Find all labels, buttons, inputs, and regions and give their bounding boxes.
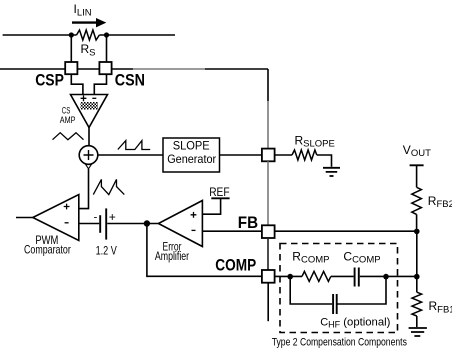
REF terminal bar <box>211 197 229 199</box>
wire: PWM output stub <box>16 217 33 219</box>
op-amp Error Amplifier triangle <box>158 201 202 247</box>
svg-text:Comparator: Comparator <box>24 243 71 257</box>
svg-text:REF: REF <box>209 187 229 199</box>
current arrow ILIN <box>72 21 97 23</box>
wire: summer output down then to PWM + input <box>79 169 89 209</box>
wire: chip edge vertical gray segment to slope pin <box>267 101 269 148</box>
wire: CHF lower branch <box>290 277 386 304</box>
VOUT terminal bar <box>410 164 424 166</box>
wire: chip edge vertical (black upper part) <box>267 69 269 101</box>
op-amp CS AMP triangle <box>71 95 108 128</box>
pin square CSP <box>65 62 77 74</box>
wire: chip edge segment FB pin to COMP pin <box>267 238 269 270</box>
svg-text:CSN: CSN <box>115 71 145 90</box>
waveform: triangle wave at CS amp output <box>53 133 84 140</box>
wire: RCOMP to CCOMP <box>331 275 354 277</box>
node: junction dot left of RS <box>69 32 74 37</box>
ground (RFB1) <box>409 328 427 336</box>
node: FB divider junction dot <box>414 229 420 235</box>
hatch block inside CS AMP <box>81 102 99 110</box>
svg-text:SLOPE: SLOPE <box>173 139 210 153</box>
node: divider/comp junction dot <box>414 274 420 280</box>
node: COMP net junction dot <box>144 220 150 226</box>
pin square SLOPE <box>262 149 275 162</box>
resistor RFB1 <box>412 292 422 316</box>
capacitor CCOMP <box>355 268 359 287</box>
wire: RS left dot down to CSP pin <box>70 35 72 62</box>
resistor RSLOPE <box>292 150 317 160</box>
capacitor CHF <box>333 294 337 314</box>
svg-text:COMP: COMP <box>215 255 256 274</box>
wire: VOUT to RFB2 <box>416 165 418 187</box>
wire: COMP node down and right to COMP pin <box>147 224 262 277</box>
battery 1.2 V <box>99 215 101 233</box>
dashed box: type 2 compensation <box>280 244 398 333</box>
waveform: sawtooth into slope summer (right of circle) <box>118 141 150 150</box>
comparator PWM triangle <box>33 195 79 241</box>
wire: COMP pin to compensation network <box>275 275 302 277</box>
wire: RFB2 to FB node <box>416 214 418 231</box>
wire: CS amp output down to summer <box>88 128 90 146</box>
ground (RSLOPE) <box>323 168 340 176</box>
wire: battery to error amp output node <box>107 223 158 225</box>
wire: RS right dot down to CSN pin <box>106 35 108 62</box>
wire: PWM - input to battery <box>79 223 100 225</box>
wire: slope pin to RSLOPE <box>275 154 292 156</box>
pin square COMP <box>262 270 275 283</box>
node: dot left in compensation <box>287 274 293 280</box>
svg-text:+: + <box>109 210 116 224</box>
svg-text:AMP: AMP <box>60 115 76 126</box>
resistor RS <box>77 30 100 40</box>
svg-text:Generator: Generator <box>167 152 216 166</box>
svg-text:1.2 V: 1.2 V <box>96 243 117 257</box>
wire: second rail into chip <box>0 68 133 70</box>
svg-text:CSP: CSP <box>35 71 64 90</box>
wire: RFB1 to ground <box>416 316 418 327</box>
svg-text:Type 2 Compensation Components: Type 2 Compensation Components <box>272 337 407 349</box>
wire: FB net from error amp - input to divider <box>202 230 416 232</box>
pin square CSN <box>99 62 111 74</box>
pin square FB <box>262 225 275 238</box>
wire: summer to slope generator <box>98 154 163 156</box>
wire: slope generator to slope pin <box>220 154 262 156</box>
wire: chip edge gray segment slope pin to FB pin <box>267 161 269 225</box>
wire: top input rail through RS <box>3 34 175 36</box>
svg-text:Amplifier: Amplifier <box>155 251 189 263</box>
wire: down to RFB1 <box>416 277 418 293</box>
wire: RSLOPE to ground <box>317 155 332 167</box>
svg-text:FB: FB <box>238 214 259 232</box>
wire: stub below COMP pin <box>267 283 269 322</box>
resistor RCOMP <box>302 271 331 281</box>
waveform: slope-compensated sawtooth above PWM + input <box>93 179 124 194</box>
open arrowhead below summer <box>86 165 92 169</box>
wire: error amp + input to REF <box>202 198 220 214</box>
wire: CSP pin to CS amp + input <box>71 74 83 94</box>
node: dot right in compensation <box>383 274 389 280</box>
wire: CSN pin to CS amp - input <box>94 74 106 94</box>
wire: FB node down to COMP row node <box>416 231 418 276</box>
wire: CCOMP to right dot and out to divider <box>360 275 417 277</box>
resistor RFB2 <box>412 187 422 214</box>
summing node circle <box>79 146 98 165</box>
svg-text:-: - <box>94 211 98 223</box>
block: SLOPE Generator <box>163 138 220 172</box>
node: junction dot right of RS <box>104 32 109 37</box>
